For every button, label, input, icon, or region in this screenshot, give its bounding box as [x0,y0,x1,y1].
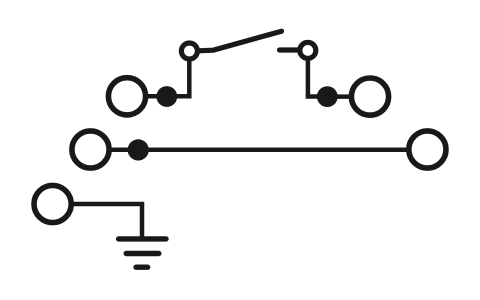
wire J1 to switch pivot [167,59,190,96]
switch fixed contact circle [300,42,316,58]
terminal T2 (upper-right clamp circle) [351,78,388,115]
wire T1 to junction J1 [145,94,167,99]
terminal T4 (middle-right clamp circle) [409,131,446,168]
terminal T5 (lower-left clamp circle) [34,185,71,222]
junction dot J3 [128,139,149,160]
wire T3 to junction J3 [109,147,138,152]
junction dot J1 [156,86,177,107]
wire J2 to terminal T2 [327,94,352,99]
ground symbol [119,239,166,267]
wire fixed contact down to junction J2 [308,58,327,97]
switch pivot contact circle [181,43,197,59]
switch blade S1 [199,31,282,51]
switch fixed contact stub [280,47,299,52]
junction dot J2 [317,86,338,107]
wire T5 to ground [71,204,142,239]
terminal T3 (middle-left clamp circle) [72,131,109,168]
terminal T1 (upper-left clamp circle) [108,78,145,115]
wire J3 to terminal T4 (feed-through bus) [138,147,407,152]
